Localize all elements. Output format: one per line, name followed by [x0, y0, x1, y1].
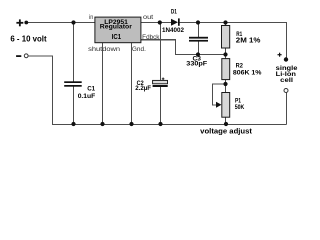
capacitor C2	[153, 80, 168, 83]
svg-text:D1: D1	[171, 9, 177, 16]
wire P1 bottom lead	[225, 117, 227, 124]
wire R2 bottom lead	[225, 80, 227, 84]
svg-text:cell: cell	[280, 77, 293, 84]
terminal input plus	[16, 22, 23, 24]
terminal input minus	[16, 55, 21, 57]
wire input + to IC in	[28, 22, 95, 24]
wire P1 wiper	[213, 84, 226, 105]
svg-text:C1: C1	[87, 86, 95, 93]
wire shutdown pin	[102, 43, 104, 125]
wire R1 top lead	[225, 23, 227, 26]
resistor R1	[222, 26, 230, 49]
wire input minus	[28, 56, 52, 125]
wire C2 / output branch	[160, 23, 162, 125]
node gnd C2	[158, 122, 162, 126]
wire battery minus riser	[286, 93, 288, 125]
svg-text:in: in	[89, 15, 93, 21]
svg-text:1N4002: 1N4002	[162, 27, 184, 34]
svg-text:out: out	[143, 14, 154, 21]
P1 wiper arrowhead	[216, 102, 222, 108]
node gnd shutdown	[100, 122, 104, 126]
svg-text:shutdown: shutdown	[88, 46, 121, 53]
svg-text:806K 1%: 806K 1%	[233, 70, 262, 77]
op-amp U1 regulator box IC1	[95, 17, 141, 43]
svg-text:50K: 50K	[235, 104, 245, 111]
diode D1	[171, 19, 178, 26]
terminal battery minus	[284, 89, 288, 93]
svg-text:Regulator: Regulator	[100, 24, 133, 31]
wire P1 top lead	[225, 84, 227, 93]
wire IC out to diode anode	[141, 22, 171, 24]
node gnd gndpin	[129, 122, 133, 126]
node output junction C2	[158, 20, 162, 24]
wire gnd pin	[131, 43, 133, 125]
node R1 top junction	[223, 20, 227, 24]
node gnd C1	[71, 122, 75, 126]
node feedback C3 junction	[196, 52, 200, 56]
capacitor C3	[189, 37, 208, 39]
node R2 P1 wiper junction	[223, 82, 227, 86]
terminal battery plus	[278, 54, 282, 55]
capacitor C1	[64, 81, 82, 83]
wire C3 branch	[198, 23, 200, 55]
svg-text:R2: R2	[236, 62, 243, 69]
potentiometer P1	[222, 93, 230, 118]
wire ground bus bottom	[52, 123, 287, 125]
svg-text:330pF: 330pF	[186, 60, 207, 67]
wire R2 top lead	[225, 55, 227, 59]
svg-text:2M 1%: 2M 1%	[236, 35, 261, 44]
wire C1 branch	[73, 23, 75, 125]
wire feedback net	[141, 40, 226, 55]
node gnd P1	[224, 122, 228, 126]
wire diode cathode to battery plus	[180, 23, 287, 58]
svg-text:Gnd.: Gnd.	[132, 46, 146, 53]
svg-text:6 - 10 volt: 6 - 10 volt	[10, 34, 46, 44]
svg-text:0.1uF: 0.1uF	[78, 93, 96, 100]
node diode cathode junction C3	[196, 20, 200, 24]
node input plus junction C1	[71, 20, 75, 24]
node R1 R2 feedback junction	[223, 52, 227, 56]
svg-text:Fdbck: Fdbck	[142, 35, 160, 41]
resistor R2	[222, 59, 230, 80]
svg-text:2.2µF: 2.2µF	[135, 85, 151, 92]
svg-text:IC1: IC1	[112, 34, 121, 41]
svg-text:voltage adjust: voltage adjust	[200, 127, 252, 136]
wire R1 bottom lead	[225, 48, 227, 55]
